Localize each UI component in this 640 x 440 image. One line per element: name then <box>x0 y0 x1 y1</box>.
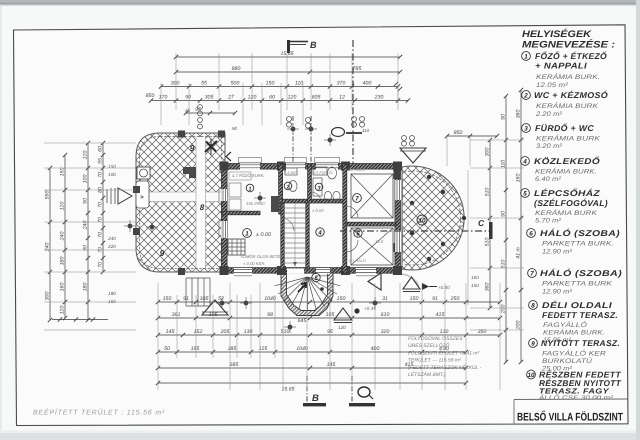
left vertical dimension chain 1 <box>49 168 51 320</box>
right vertical dimension chain 2 <box>505 96 507 362</box>
svg-text:145: 145 <box>327 362 336 368</box>
svg-text:>: > <box>140 195 144 201</box>
section marker B bottom <box>306 376 308 403</box>
legend item 8 <box>529 301 538 310</box>
svg-text:105: 105 <box>200 296 209 302</box>
svg-text:145: 145 <box>166 329 175 335</box>
entry landing <box>136 181 149 208</box>
extension lines from top chains <box>175 53 177 110</box>
svg-text:FÖLDSZINTI ÉPÜLET 78.41 m²: FÖLDSZINTI ÉPÜLET 78.41 m² <box>408 349 479 356</box>
svg-text:9: 9 <box>531 340 535 347</box>
svg-text:361: 361 <box>172 312 181 318</box>
terrace 9 L-shaped pier <box>183 167 196 178</box>
svg-text:± 0.00 KER.: ± 0.00 KER. <box>243 261 266 266</box>
svg-text:4: 4 <box>522 158 527 165</box>
interior wall wc/bath lower <box>282 199 346 203</box>
svg-text:370: 370 <box>337 80 346 86</box>
room number 5 <box>312 273 320 281</box>
svg-text:6.2 HÁLÓ: 6.2 HÁLÓ <box>348 167 365 172</box>
svg-text:2: 2 <box>286 184 290 190</box>
interior wall hall/bedrooms vertical <box>343 164 347 273</box>
svg-text:160: 160 <box>516 174 522 183</box>
door swing arcs from bottom wall <box>395 274 419 286</box>
svg-text:PARKETTA BURK.: PARKETTA BURK. <box>542 241 614 248</box>
svg-text:305: 305 <box>205 94 214 100</box>
svg-text:HÁLÓ (SZOBA): HÁLÓ (SZOBA) <box>540 268 622 278</box>
svg-text:8: 8 <box>200 203 205 212</box>
svg-text:320: 320 <box>381 329 390 335</box>
extension lines from bottom chains <box>157 283 159 390</box>
left vertical dimension chain 3 <box>87 143 89 320</box>
svg-text:400: 400 <box>363 80 372 86</box>
small angle mark near building corner <box>226 152 231 161</box>
kitchen fridge block <box>271 196 280 212</box>
svg-text:HELYISÉGEK: HELYISÉGEK <box>522 28 592 40</box>
svg-text:2: 2 <box>523 92 528 99</box>
svg-text:12.90 m²: 12.90 m² <box>542 289 573 296</box>
section marker C top <box>332 128 345 137</box>
bottom dimension chain row 4 <box>158 351 466 353</box>
svg-text:4.7 FŐZŐ BURK.: 4.7 FŐZŐ BURK. <box>232 173 265 178</box>
door openings and swings <box>281 218 294 231</box>
svg-text:C: C <box>478 218 485 228</box>
svg-text:3: 3 <box>318 185 321 191</box>
svg-text:27: 27 <box>227 94 235 100</box>
svg-text:70: 70 <box>98 202 104 208</box>
svg-text:150 29.10: 150 29.10 <box>246 201 265 206</box>
svg-text:+0.45: +0.45 <box>364 306 376 311</box>
small paired dims below top chains <box>287 117 292 122</box>
legend item 2 <box>522 91 531 100</box>
svg-text:KÖZLEKEDŐ: KÖZLEKEDŐ <box>534 156 600 166</box>
svg-text:240: 240 <box>45 243 51 253</box>
svg-text:45: 45 <box>185 108 191 113</box>
svg-text:230: 230 <box>374 94 384 100</box>
svg-text:350: 350 <box>478 329 487 335</box>
svg-text:170: 170 <box>159 94 168 100</box>
svg-text:1040: 1040 <box>264 296 276 302</box>
bottom dimension chain row 5 <box>158 367 466 369</box>
svg-text:HÁLÓ (SZOBA): HÁLÓ (SZOBA) <box>540 228 620 238</box>
svg-text:110: 110 <box>501 160 507 168</box>
misc survey dots <box>128 224 133 229</box>
svg-text:180: 180 <box>108 291 116 296</box>
svg-text:850: 850 <box>454 130 463 136</box>
svg-text:120: 120 <box>83 151 89 160</box>
section marker B top <box>287 40 290 53</box>
bedroom 6 carpet X square <box>351 228 393 265</box>
svg-text:10: 10 <box>527 372 535 379</box>
interior wall kitchen/wc <box>279 164 283 214</box>
terrace 9 walkway lanes <box>149 192 222 202</box>
svg-text:50: 50 <box>164 346 170 352</box>
right vertical dimension chain 3 <box>520 90 522 362</box>
svg-text:120: 120 <box>338 325 346 330</box>
svg-text:250: 250 <box>450 296 460 302</box>
building exterior walls <box>222 164 401 170</box>
svg-text:DÉLI OLDALI: DÉLI OLDALI <box>542 300 612 310</box>
svg-text:120: 120 <box>60 202 66 211</box>
svg-text:7: 7 <box>355 195 359 202</box>
stair direction arrow scribble in bay <box>298 283 306 292</box>
svg-text:(SZÉLFOGÓVAL): (SZÉLFOGÓVAL) <box>534 198 608 208</box>
svg-text:55: 55 <box>98 158 104 164</box>
legend item 3 <box>522 124 531 133</box>
svg-text:+0.80: +0.80 <box>438 285 450 290</box>
svg-text:880: 880 <box>232 66 241 72</box>
wc fixtures <box>285 168 297 175</box>
windows left wall <box>221 189 227 201</box>
svg-text:1: 1 <box>524 53 528 60</box>
svg-text:785: 785 <box>353 66 362 72</box>
axis dash-dot stubs above building <box>292 116 294 163</box>
top dimension chain row 2 <box>176 71 400 73</box>
hollow triangle marker south of stair bay <box>334 308 352 320</box>
svg-text:15.65: 15.65 <box>282 387 295 393</box>
svg-text:130: 130 <box>440 329 449 335</box>
svg-text:110: 110 <box>362 128 370 133</box>
svg-text:PARKETTA BURK: PARKETTA BURK <box>542 281 613 288</box>
straight stair treads <box>284 207 306 209</box>
svg-text:300: 300 <box>485 148 491 157</box>
svg-text:6.40 m²: 6.40 m² <box>535 176 562 183</box>
svg-text:41 m: 41 m <box>516 247 522 259</box>
short chain above terrace 10 <box>447 135 497 137</box>
svg-text:1: 1 <box>249 186 252 192</box>
room number 3 <box>315 183 323 191</box>
left vertical dimension chain 2 <box>64 155 66 318</box>
terrace 10 dark edge dots <box>427 175 431 179</box>
svg-text:10: 10 <box>418 217 426 224</box>
windows right wall <box>395 180 401 200</box>
svg-text:KERÁMIA BURK.: KERÁMIA BURK. <box>536 73 600 81</box>
svg-text:WC + KÉZMOSÓ: WC + KÉZMOSÓ <box>534 90 608 100</box>
svg-text:90: 90 <box>501 114 507 120</box>
bottom dimension chain row 3 <box>158 334 500 336</box>
room number 2 <box>284 182 292 190</box>
kitchen counter fixtures <box>229 172 251 180</box>
right extension ticks <box>470 139 524 141</box>
left-pointing hollow arrow below bottom wall <box>368 273 381 290</box>
svg-text:BELSŐ VILLA FÖLDSZINT: BELSŐ VILLA FÖLDSZINT <box>517 411 623 424</box>
dark filled arrow marker +0.80 <box>422 283 429 290</box>
svg-text:415: 415 <box>436 312 445 318</box>
svg-text:90: 90 <box>501 211 507 217</box>
svg-text:KERÁMIA BURK.: KERÁMIA BURK. <box>535 168 597 176</box>
svg-text:220: 220 <box>107 244 116 249</box>
terrace pier with column top-left <box>137 167 150 179</box>
terrace 9 crosshatched (left) <box>136 133 225 272</box>
svg-text:7: 7 <box>530 270 534 277</box>
svg-text:BEÉPÍTETT TERÜLET : 115.56: BEÉPÍTETT TERÜLET : 115.56 m² <box>33 408 165 417</box>
scan bottom gray edge band <box>0 433 640 440</box>
svg-text:98: 98 <box>267 312 273 318</box>
stair bay octagon (bottom) <box>281 273 333 316</box>
chain terminus row bottom-left <box>52 319 108 321</box>
svg-text:(FEDETT TERASZOK NÉLKÜL -: (FEDETT TERASZOK NÉLKÜL - <box>408 364 482 371</box>
svg-text:590: 590 <box>45 191 51 200</box>
windows bottom wall <box>234 268 252 274</box>
svg-text:FÜRDŐ + WC: FÜRDŐ + WC <box>535 123 595 133</box>
svg-text:LÉPCSŐHÁZ: LÉPCSŐHÁZ <box>534 188 601 198</box>
stairwell walls <box>281 203 284 269</box>
svg-text:4.4 WC: 4.4 WC <box>284 171 297 175</box>
bottom dimension chain row 6 <box>158 382 466 384</box>
section marker C bottom <box>351 376 353 403</box>
interior wall bath/hall vertical <box>308 164 312 203</box>
svg-text:70: 70 <box>98 172 104 178</box>
section line C vertical dash-dot <box>352 40 354 163</box>
svg-text:MEGNEVEZÉSE :: MEGNEVEZÉSE : <box>522 39 615 51</box>
svg-text:160: 160 <box>108 299 116 304</box>
room number 10 <box>417 215 427 225</box>
bath fixtures <box>313 167 327 175</box>
svg-text:KERÁMIA BURK.: KERÁMIA BURK. <box>543 329 605 337</box>
top dimension chain row 4 <box>151 100 408 102</box>
room number 6 <box>354 229 362 237</box>
svg-text:TERASZ. FAGY: TERASZ. FAGY <box>539 387 610 396</box>
bottom dimension chain row 1 <box>158 301 500 303</box>
svg-text:KERÁMIA BURK: KERÁMIA BURK <box>536 102 599 110</box>
room number 1 kitchen <box>246 184 254 192</box>
svg-text:90: 90 <box>232 126 238 131</box>
svg-text:100: 100 <box>108 172 116 177</box>
svg-text:FOLYOSÓVAL ÖSSZES: FOLYOSÓVAL ÖSSZES <box>408 335 463 342</box>
svg-text:510: 510 <box>485 238 491 247</box>
svg-text:360: 360 <box>485 283 491 292</box>
svg-text:240: 240 <box>107 236 116 241</box>
svg-text:385: 385 <box>228 346 237 352</box>
piers on terrace 9 border <box>178 131 185 138</box>
svg-text:200: 200 <box>501 305 507 315</box>
svg-text:120: 120 <box>288 94 297 100</box>
door gap bottom wall to stair bay <box>287 269 304 274</box>
kitchen partition <box>222 211 260 215</box>
svg-text:TÖMÖR OLDS BETÉT: TÖMÖR OLDS BETÉT <box>240 254 283 259</box>
legend item 10 <box>527 370 536 379</box>
bedroom 7 carpet X square <box>351 174 393 218</box>
svg-text:6: 6 <box>529 230 533 237</box>
svg-text:205: 205 <box>220 329 230 335</box>
svg-text:60: 60 <box>98 146 104 152</box>
terrace 10 crosshatched (right, circular) <box>402 166 464 270</box>
scan left edge <box>0 5 2 431</box>
mini chain top-left <box>186 112 235 114</box>
svg-text:70: 70 <box>98 262 104 268</box>
hollow triangle marker below terrace 10 <box>403 277 420 289</box>
svg-text:605: 605 <box>312 94 321 100</box>
kitchen stove dark block <box>228 239 245 255</box>
svg-text:685: 685 <box>230 362 239 368</box>
steps bottom-left <box>185 278 187 306</box>
legend item 9 <box>529 339 538 348</box>
svg-text:180: 180 <box>60 257 66 266</box>
legend item 7 <box>528 269 537 278</box>
hollow triangle marker above terrace 10 <box>400 148 426 163</box>
svg-text:150: 150 <box>337 296 346 302</box>
svg-text:ÜRES SZELLŐZŐ: ÜRES SZELLŐZŐ <box>408 342 450 349</box>
svg-text:± 0.00: ± 0.00 <box>256 232 271 238</box>
svg-text:360: 360 <box>516 110 522 119</box>
svg-text:8: 8 <box>531 302 535 309</box>
svg-text:120: 120 <box>60 306 66 315</box>
bottom dimension chain row 2 <box>158 317 500 319</box>
svg-text:200: 200 <box>516 321 522 331</box>
svg-text:55: 55 <box>201 80 207 86</box>
svg-text:185: 185 <box>191 346 200 352</box>
svg-text:150: 150 <box>471 283 479 288</box>
svg-text:FŐZŐ + ÉTKEZŐ: FŐZŐ + ÉTKEZŐ <box>535 51 607 61</box>
hollow triangle marker bottom-left <box>202 300 228 315</box>
svg-text:12.90 m²: 12.90 m² <box>542 249 573 256</box>
svg-text:100: 100 <box>83 175 89 184</box>
entry arrow west <box>118 188 132 204</box>
svg-text:60: 60 <box>269 94 275 100</box>
svg-text:510: 510 <box>501 260 507 269</box>
top dimension chain row 1 <box>176 56 400 58</box>
svg-text:510: 510 <box>485 188 491 197</box>
svg-text:500: 500 <box>231 80 240 86</box>
svg-text:510: 510 <box>281 329 290 335</box>
stair bay winder treads <box>275 277 308 286</box>
title block <box>514 398 628 401</box>
svg-text:B: B <box>310 40 317 50</box>
svg-text:9: 9 <box>160 248 165 258</box>
svg-text:850: 850 <box>146 93 155 99</box>
left vertical dimension chain 4 <box>102 143 104 272</box>
svg-text:FEDETT TERASZ.: FEDETT TERASZ. <box>542 310 618 320</box>
svg-text:180: 180 <box>83 283 89 292</box>
windows top wall with sills <box>240 163 260 169</box>
svg-text:150: 150 <box>163 296 172 302</box>
section line C horizontal dash-dot <box>340 230 490 232</box>
svg-text:3.5 FÜRDŐ: 3.5 FÜRDŐ <box>313 170 333 175</box>
legend item 4 <box>521 157 530 166</box>
svg-text:BURKOLATÚ: BURKOLATÚ <box>542 357 592 365</box>
svg-text:KERÁMIA BURK: KERÁMIA BURK <box>535 209 598 217</box>
svg-text:± 0.00: ± 0.00 <box>312 208 324 213</box>
legend item 5 <box>521 189 530 198</box>
svg-text:5: 5 <box>523 190 527 197</box>
room number 4 <box>316 228 324 236</box>
scan right gray edge band <box>636 0 640 440</box>
right vertical dimension chain 1 <box>489 140 491 308</box>
svg-text:LÉTSZÁM BMT.): LÉTSZÁM BMT.) <box>408 371 446 378</box>
svg-text:91: 91 <box>432 296 438 302</box>
svg-text:12.05 m²: 12.05 m² <box>536 82 569 89</box>
svg-text:95: 95 <box>195 107 201 113</box>
left extension ticks <box>44 142 136 144</box>
svg-text:300: 300 <box>45 292 51 301</box>
svg-text:160: 160 <box>60 283 66 292</box>
svg-text:3.20 m²: 3.20 m² <box>536 143 563 150</box>
legend item 1 <box>522 52 531 61</box>
svg-text:31: 31 <box>382 296 388 302</box>
svg-text:610: 610 <box>381 312 390 318</box>
svg-text:ÁLLÓ CSE 30.00 m²: ÁLLÓ CSE 30.00 m² <box>538 394 615 402</box>
svg-text:KERÁMIA BURK: KERÁMIA BURK <box>536 135 601 143</box>
svg-text:300: 300 <box>171 80 180 86</box>
svg-text:4: 4 <box>317 229 322 236</box>
svg-text:240: 240 <box>60 232 66 242</box>
svg-text:5.70 m²: 5.70 m² <box>535 218 562 225</box>
extension line right of terrace 10 <box>467 170 469 305</box>
svg-text:FAGYÁLLÓ KER: FAGYÁLLÓ KER <box>542 350 606 358</box>
svg-text:12: 12 <box>339 94 345 100</box>
right wall jamb piers <box>394 170 401 179</box>
terrace 9 compass star scribble <box>205 141 217 152</box>
svg-text:90: 90 <box>83 198 89 204</box>
svg-text:150: 150 <box>266 80 275 86</box>
corner piers <box>220 162 229 171</box>
svg-text:3: 3 <box>524 125 528 132</box>
svg-text:FAGYÁLLÓ: FAGYÁLLÓ <box>543 321 587 329</box>
svg-text:90: 90 <box>185 94 191 100</box>
svg-text:NYITOTT TERASZ.: NYITOTT TERASZ. <box>541 338 620 348</box>
room number 7 <box>353 194 362 203</box>
svg-text:91: 91 <box>183 296 189 302</box>
svg-text:9: 9 <box>190 143 195 153</box>
svg-text:B: B <box>312 393 319 404</box>
svg-text:645: 645 <box>298 318 307 324</box>
svg-text:150: 150 <box>410 296 419 302</box>
svg-text:150: 150 <box>60 168 66 177</box>
svg-text:70: 70 <box>98 232 104 238</box>
room number 1 dining <box>243 229 252 238</box>
legend item 6 <box>527 229 536 238</box>
svg-text:152: 152 <box>194 329 203 335</box>
svg-text:15.0: 15.0 <box>375 239 384 244</box>
svg-text:160: 160 <box>471 275 479 280</box>
top dimension chain row 3 <box>161 86 398 88</box>
svg-text:1: 1 <box>245 230 249 237</box>
svg-text:TERÜLET — 115.56 m²: TERÜLET — 115.56 m² <box>408 357 461 364</box>
svg-text:110: 110 <box>295 80 303 86</box>
interior wall bedroom divider <box>346 222 396 226</box>
svg-text:6.1 HÁLÓ: 6.1 HÁLÓ <box>349 258 366 263</box>
scan top gray edge band <box>0 0 640 3</box>
svg-text:2.20 m²: 2.20 m² <box>535 111 563 118</box>
svg-text:+ NAPPALI: + NAPPALI <box>535 61 587 71</box>
svg-text:1040: 1040 <box>296 346 308 352</box>
